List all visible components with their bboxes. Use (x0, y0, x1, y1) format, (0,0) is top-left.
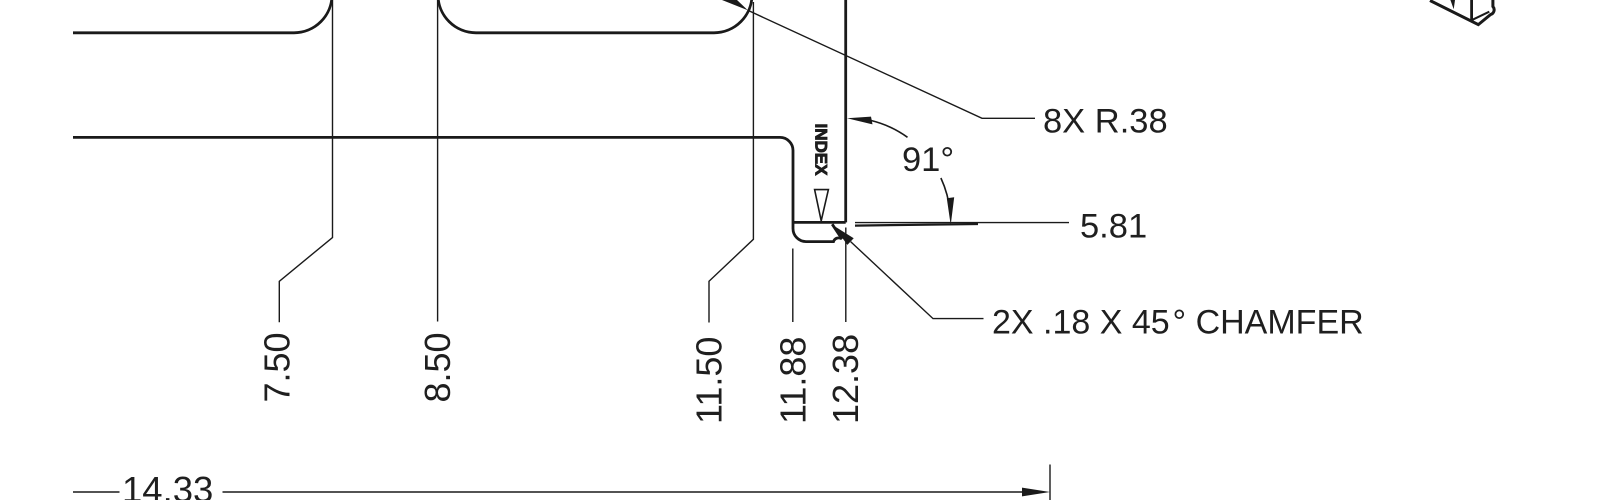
svg-text:7.50: 7.50 (257, 332, 298, 402)
isometric view chamfer inner edge (1472, 12, 1490, 21)
dimension line 5.81 (855, 222, 1069, 224)
svg-text:11.50: 11.50 (689, 337, 730, 424)
isometric view vertical edge (1470, 0, 1473, 20)
part top surface left segment with fillet (73, 0, 332, 33)
angle 91 arc lower segment (941, 178, 950, 212)
svg-text:12.38: 12.38 (825, 334, 866, 424)
dimension 14.33 left stub (73, 491, 120, 493)
leader line chamfer (851, 242, 984, 319)
arrowhead 14.33 (1022, 488, 1050, 497)
extended part edge at 91 degrees (855, 224, 978, 226)
isometric view corner outline (1430, 0, 1494, 25)
svg-text:11.88: 11.88 (773, 337, 814, 424)
svg-text:8.50: 8.50 (417, 332, 458, 402)
arrowhead chamfer leader (833, 225, 854, 245)
leader line 8X R.38 (748, 10, 1035, 118)
svg-text:91°: 91° (902, 141, 954, 179)
extension line 12.38 (845, 228, 847, 323)
svg-text:5.81: 5.81 (1080, 208, 1147, 246)
extension line 8.50 (437, 0, 439, 322)
extension line 11.50 (709, 2, 753, 323)
part mid surface and undercut groove outline (73, 137, 842, 241)
arrowhead leader 8X R.38 (722, 0, 748, 10)
svg-text:INDEX: INDEX (812, 124, 831, 177)
index pointer open triangle (815, 190, 829, 221)
svg-text:14.33: 14.33 (122, 469, 213, 500)
arrowhead 91 deg down (947, 197, 954, 225)
extension line 14.33 right (1049, 465, 1051, 500)
dimension line 14.33 (223, 491, 1025, 493)
angle 91 arc upper segment (871, 121, 907, 138)
part end face edge (844, 0, 847, 222)
svg-text:2X .18 X 45 ° CHAMFER: 2X .18 X 45 ° CHAMFER (992, 304, 1364, 342)
arrowhead stub isometric (1450, 0, 1455, 9)
arrowhead 91 deg at face (847, 117, 873, 125)
groove top edge line (793, 221, 846, 224)
part top surface middle segment with fillets both ends (438, 0, 752, 33)
extension line 11.88 (792, 249, 794, 323)
extension line 7.50 (279, 0, 332, 322)
svg-text:8X R.38: 8X R.38 (1043, 103, 1168, 141)
